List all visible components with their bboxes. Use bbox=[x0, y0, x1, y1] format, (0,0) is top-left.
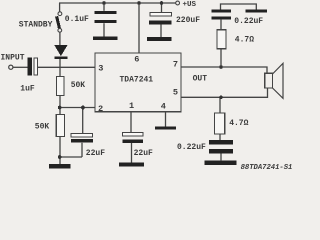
speaker: driver box bbox=[265, 73, 273, 88]
capacitor 0.22uF upper: bottom plate bbox=[211, 17, 231, 20]
wire: node B branch to 22uF bbox=[82, 108, 84, 134]
svg-text:50K: 50K bbox=[35, 122, 50, 131]
junction: pin5 / zobel bbox=[219, 96, 223, 100]
junction: node B left bbox=[58, 106, 62, 110]
svg-text:22uF: 22uF bbox=[86, 149, 105, 158]
capacitor 22uF (pin 1): hollow plate bbox=[122, 132, 143, 136]
capacitor 0.22uF lower: top plate bbox=[209, 140, 233, 144]
capacitor 1uF: solid plate bbox=[28, 57, 33, 75]
svg-text:OUT: OUT bbox=[193, 74, 208, 83]
svg-text:6: 6 bbox=[134, 54, 139, 64]
wire: 220uF cap to ground bbox=[160, 24, 162, 37]
svg-text:TDA7241: TDA7241 bbox=[120, 76, 154, 85]
wire: rail to 220uF cap bbox=[161, 3, 163, 13]
junction: pin7 / zobel bbox=[219, 65, 223, 69]
svg-text:1: 1 bbox=[129, 101, 134, 111]
junction: rail / pin 6 bbox=[137, 1, 141, 5]
wire: input node to 50K resistor bbox=[59, 67, 61, 76]
svg-text:INPUT: INPUT bbox=[1, 54, 25, 63]
wire: 50K resistor to pin2 net bbox=[59, 95, 61, 107]
wire: pin7 node to 4.7ohm bbox=[220, 49, 222, 67]
svg-text:5: 5 bbox=[173, 88, 178, 98]
wire: rail drop to standby switch bbox=[59, 3, 61, 12]
capacitor 1uF: hollow plate bbox=[34, 58, 38, 75]
wire: pin-1 22uF to ground bbox=[131, 143, 133, 163]
ground: below lower 0.22uF bbox=[205, 160, 237, 164]
IC TDA7241 box bbox=[95, 53, 181, 112]
switch STANDBY: top contact bbox=[58, 12, 62, 16]
wire: lower 0.22uF to ground bbox=[220, 153, 222, 161]
svg-text:4: 4 bbox=[161, 102, 166, 112]
svg-text:4.7Ω: 4.7Ω bbox=[235, 36, 254, 45]
switch STANDBY: bottom contact bbox=[58, 28, 62, 32]
svg-text:0.22uF: 0.22uF bbox=[234, 17, 263, 26]
wire: lower 4.7ohm to 0.22uF bbox=[219, 134, 221, 140]
wire: 22uF bottom down bbox=[81, 143, 83, 157]
diode: cathode bar bbox=[54, 56, 67, 59]
svg-text:22uF: 22uF bbox=[134, 149, 153, 158]
resistor 4.7 ohm upper bbox=[217, 30, 226, 49]
capacitor 220uF: hollow plate bbox=[150, 13, 172, 17]
wire: 0.22uF top plate to ground bar bbox=[221, 4, 257, 10]
switch STANDBY: lever bbox=[57, 16, 60, 28]
capacitor 220uF: solid plate bbox=[149, 21, 172, 25]
ground: below lower 50K bbox=[49, 164, 71, 168]
capacitor 0.22uF lower: bottom plate bbox=[209, 149, 233, 153]
svg-text:1uF: 1uF bbox=[20, 84, 35, 93]
wire: rail to pin 6 bbox=[138, 3, 140, 53]
wire: +VS supply rail bbox=[59, 2, 176, 4]
capacitor 0.22uF upper: top plate bbox=[211, 10, 231, 13]
resistor 50K upper bbox=[56, 76, 64, 95]
terminal: INPUT bbox=[9, 65, 13, 69]
wire: diode cathode to input node bbox=[59, 59, 61, 68]
svg-text:STANDBY: STANDBY bbox=[19, 20, 53, 29]
ground: below 220uF bbox=[147, 37, 172, 41]
wire: rail to 0.1uF cap bbox=[103, 3, 105, 11]
ground: below pin 4 bbox=[155, 126, 176, 129]
svg-text:7: 7 bbox=[173, 60, 178, 70]
wire: node B to lower 50K bbox=[59, 108, 61, 115]
resistor 50K lower bbox=[56, 115, 64, 137]
svg-text:50K: 50K bbox=[71, 81, 86, 90]
junction: rail / 220uF bbox=[160, 1, 164, 5]
resistor 4.7 ohm lower bbox=[215, 113, 225, 134]
capacitor 0.1uF: top plate bbox=[95, 11, 117, 14]
junction: node B / 22uF bbox=[81, 106, 85, 110]
ground: top right bar bbox=[246, 10, 267, 13]
wire: switch to diode bbox=[59, 32, 61, 45]
wire: pin 7 output to speaker bbox=[181, 67, 267, 73]
wire: 4.7ohm to 0.22uF bbox=[220, 20, 222, 30]
capacitor 22uF (pin 1): solid plate bbox=[122, 139, 143, 142]
svg-text:+US: +US bbox=[183, 1, 197, 9]
terminal: +VS bbox=[176, 1, 180, 5]
svg-text:3: 3 bbox=[98, 63, 103, 73]
capacitor 22uF (node B): solid plate bbox=[71, 139, 93, 143]
wire: pin5 node to lower 4.7ohm bbox=[219, 97, 221, 113]
wire: lower 50K to ground bbox=[59, 137, 61, 165]
capacitor 0.1uF: bottom plate bbox=[95, 20, 117, 23]
wire: pin 5 output to speaker bbox=[181, 88, 268, 97]
junction: ground run bbox=[58, 155, 62, 159]
junction: rail / 0.1uF bbox=[102, 1, 106, 5]
wire: pin 2 to node B bbox=[60, 107, 96, 109]
ground: below 0.1uF bbox=[93, 37, 118, 41]
svg-text:2: 2 bbox=[98, 104, 103, 114]
svg-text:0.22uF: 0.22uF bbox=[177, 143, 206, 152]
svg-text:88TDA7241-S1: 88TDA7241-S1 bbox=[241, 164, 293, 171]
wire: 0.1uF cap to ground bbox=[103, 23, 105, 37]
svg-text:0.1uF: 0.1uF bbox=[65, 15, 89, 24]
speaker: cone bbox=[273, 63, 284, 98]
wire: 1uF cap to pin 3 bbox=[37, 66, 95, 68]
wire: pin 1 to 22uF bbox=[130, 112, 132, 133]
svg-text:4.7Ω: 4.7Ω bbox=[229, 119, 248, 128]
capacitor 22uF (node B): hollow plate bbox=[71, 133, 92, 137]
wire: input terminal to 1uF cap bbox=[13, 66, 28, 68]
ground: below pin-1 22uF bbox=[119, 162, 144, 166]
svg-text:220uF: 220uF bbox=[176, 16, 200, 25]
wire: pin 4 to ground bbox=[165, 112, 167, 127]
diode: anode triangle bbox=[54, 45, 67, 56]
wire: 22uF bottom to ground run bbox=[60, 156, 83, 158]
